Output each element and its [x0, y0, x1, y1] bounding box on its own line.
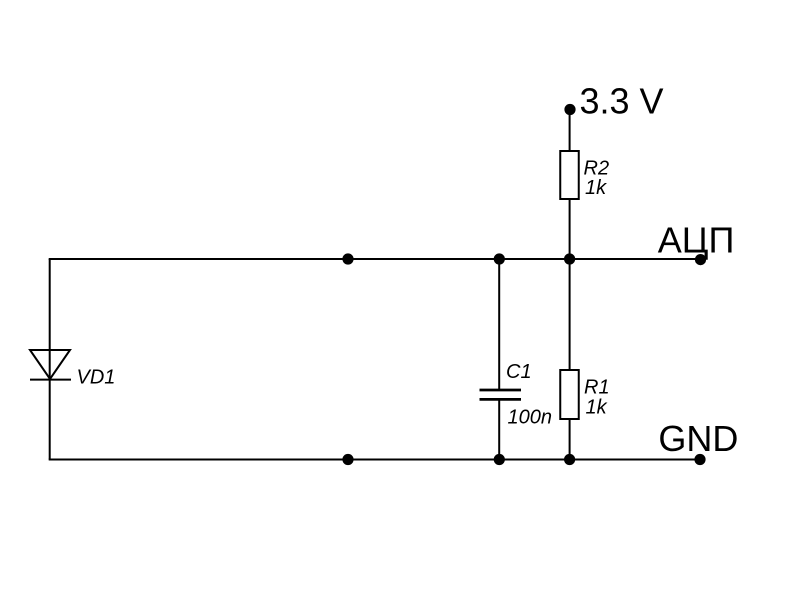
junction: bottom rail / R divider — [564, 454, 575, 465]
resistor R1 body — [560, 370, 579, 419]
svg-text:C1: C1 — [506, 361, 532, 383]
wire: top rail down to R1 top — [569, 259, 571, 370]
resistor R1 reference label — [584, 377, 610, 399]
node GND endpoint dot — [694, 454, 705, 465]
node АЦП net label — [658, 219, 735, 260]
svg-text:VD1: VD1 — [77, 366, 116, 388]
node АЦП endpoint dot — [695, 254, 706, 265]
junction: top rail / R divider — [564, 253, 575, 264]
junction: top rail x=348 — [342, 253, 353, 264]
svg-text:1k: 1k — [586, 397, 608, 419]
power +3.3V node dot — [564, 104, 575, 115]
svg-text:R1: R1 — [584, 377, 610, 399]
svg-text:3.3 V: 3.3 V — [580, 81, 664, 122]
wire: bottom rail from left corner to GND node — [49, 459, 700, 461]
wire: 3.3V dot down to R2 top — [569, 110, 571, 152]
diode VD1 reference label — [77, 366, 116, 388]
capacitor C1 bottom plate — [480, 398, 522, 401]
junction: bottom rail x=348 — [342, 454, 353, 465]
diode VD1 triangle (anode) — [30, 350, 70, 379]
wire: top rail from left corner to ADC node — [49, 258, 700, 260]
svg-text:1k: 1k — [585, 177, 607, 199]
capacitor C1 top plate — [480, 389, 522, 392]
svg-text:АЦП: АЦП — [658, 219, 735, 260]
capacitor C1 value label 100n — [508, 406, 553, 428]
svg-text:100n: 100n — [508, 406, 553, 428]
node GND net label — [658, 418, 738, 459]
wire: C1 bottom plate to bottom rail — [498, 400, 500, 460]
capacitor C1 reference label — [506, 361, 532, 383]
wire: top rail down to C1 top plate — [498, 259, 500, 390]
power +3.3V label — [580, 81, 664, 122]
resistor R2 reference label — [584, 158, 610, 180]
resistor R2 value label 1k — [585, 177, 607, 199]
diode VD1 cathode bar — [30, 379, 71, 381]
resistor R2 body — [560, 151, 579, 199]
wire: R1 bottom to bottom rail — [569, 419, 571, 460]
wire: left vertical (anode/cathode branch of VD1) — [49, 259, 51, 460]
wire: R2 bottom to top rail — [569, 199, 571, 259]
junction: top rail / C1 branch — [494, 253, 505, 264]
svg-text:GND: GND — [658, 418, 738, 459]
junction: bottom rail / C1 branch — [494, 454, 505, 465]
resistor R1 value label 1k — [586, 397, 608, 419]
